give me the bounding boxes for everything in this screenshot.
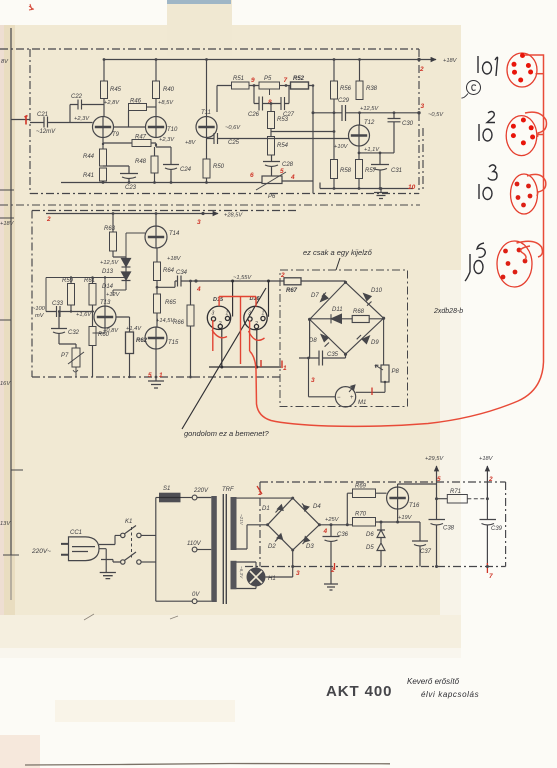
svg-text:R62: R62 [136,338,148,344]
svg-text:R66: R66 [173,320,185,326]
svg-text:D3: D3 [306,544,314,550]
svg-text:2: 2 [218,321,222,327]
svg-text:C36: C36 [337,532,349,538]
wire switch to transformer column [141,498,192,602]
wire +28.5V top rail [46,213,203,215]
kijelzo dashed enclosure [280,270,408,407]
svg-text:C25: C25 [228,140,240,146]
resistor R65 [154,294,161,313]
svg-text:R67: R67 [286,288,298,294]
svg-text:C29: C29 [338,98,350,104]
resistor R61 [89,284,96,306]
svg-text:C32: C32 [68,330,80,336]
resistor R52 [291,82,309,89]
svg-text:+18V: +18V [0,221,15,227]
svg-text:R41: R41 [83,173,94,179]
svg-text:110V: 110V [187,541,202,547]
mains plug CC1 [61,537,99,561]
wire diode column to bias rail [46,273,126,312]
svg-text:+1,6V: +1,6V [76,312,92,318]
fuse S1 [159,493,181,503]
svg-text:C37: C37 [420,549,432,555]
svg-text:~0,5V: ~0,5V [428,112,444,118]
resistor R62 [126,332,134,354]
svg-text:T9: T9 [112,132,120,138]
svg-text:9: 9 [251,77,255,84]
bottom rail right [320,183,413,189]
capacitor C27 [271,86,289,111]
svg-text:AKT 400: AKT 400 [326,683,392,700]
left edge tick y470 [11,469,23,471]
capacitor C22 [70,100,104,123]
svg-text:+25V: +25V [325,517,340,523]
svg-text:D9: D9 [371,340,379,346]
diode D4 [302,504,309,511]
transistor T15 [145,327,167,349]
capacitor C38 [429,520,446,567]
svg-text:R65: R65 [165,300,177,306]
ground C36 [324,584,338,590]
svg-text:C28: C28 [282,162,294,168]
red wires into sockets [212,297,265,365]
resistor R54 [268,137,275,156]
svg-text:P5: P5 [264,76,272,82]
resistor R45 [101,81,108,99]
svg-text:+1,4V: +1,4V [126,326,142,332]
svg-text:~1,55V: ~1,55V [233,275,252,281]
terminal 220V [192,495,197,500]
wire T12 top [359,113,361,125]
svg-text:R56: R56 [340,86,352,92]
svg-text:T14: T14 [169,231,180,237]
svg-text:R53: R53 [277,117,289,123]
transistor T14 [145,226,167,248]
junction dots middle box [58,212,205,379]
svg-text:R51: R51 [233,76,244,82]
junction dots top box [102,58,421,190]
lamp H1 [247,568,266,587]
transistor T11 [196,117,217,138]
resistor R58 [331,160,338,179]
page divider dash line [0,204,420,206]
resistor R46 [129,104,147,111]
svg-text:R50: R50 [213,164,225,170]
svg-text:M1: M1 [358,400,366,406]
svg-text:S1: S1 [163,486,170,492]
left page-edge vertical rule [10,28,12,600]
middle amplifier dashed enclosure [32,211,298,378]
wire mid column x334 [333,99,335,160]
resistor R47 [132,140,151,147]
potentiometer P8 [381,365,389,382]
wire T13 collector up [104,278,106,307]
svg-text:+12,5V: +12,5V [100,260,119,266]
svg-text:R68: R68 [353,309,365,315]
resistor R53 [268,112,275,129]
left edge tick y218 [0,217,14,219]
zener D6 [377,522,385,538]
svg-text:P8: P8 [392,369,400,375]
resistor R68 [352,316,369,323]
diode D11 middle [310,318,353,320]
bottom scan edge line [25,764,390,766]
wire rail drops [104,60,360,117]
capacitor C34 [157,276,196,288]
svg-text:D6: D6 [366,532,374,538]
svg-text:+19V: +19V [398,515,413,521]
svg-text:R38: R38 [366,86,378,92]
wire T12 emitter [359,146,394,160]
resistor R51 [232,82,250,89]
svg-text:0V: 0V [192,592,200,598]
svg-text:T15: T15 [168,340,179,346]
svg-text:6: 6 [250,172,254,179]
meter bridge diamond [310,282,384,354]
terminal 0V [192,599,197,604]
svg-text:220V~: 220V~ [31,548,51,555]
svg-text:~6,3V: ~6,3V [239,566,244,579]
svg-text:~12mV: ~12mV [36,129,56,135]
potentiometer P6 [262,176,282,184]
svg-text:C38: C38 [443,526,455,532]
svg-text:13V: 13V [0,521,11,527]
diode D3 [303,537,310,544]
meter M1 [335,387,355,407]
svg-text:+29,5V: +29,5V [425,456,444,462]
diode D1 [276,505,284,513]
handwriting 102 [479,112,495,142]
svg-text:+18V: +18V [167,256,182,262]
ground top box [374,189,388,199]
stray pencil mark [84,614,178,620]
resistor R63 [110,232,117,251]
svg-text:1: 1 [159,372,163,379]
red tick node 4 [260,360,262,367]
svg-text:R58: R58 [340,168,352,174]
wire socket feeds from output line [209,281,281,367]
capacitor C23 [103,166,138,183]
svg-text:C31: C31 [391,168,402,174]
svg-text:5: 5 [148,372,152,379]
svg-text:5: 5 [437,476,441,483]
circled c mark [462,81,481,99]
svg-text:+18V: +18V [443,58,458,64]
junction dots socket line [220,280,270,369]
svg-text:1: 1 [226,311,229,317]
svg-text:220V: 220V [193,488,209,494]
resistor R66 [187,305,194,326]
+18V arrow psu [486,466,488,499]
capacitor C33 [46,306,94,317]
resistor R59 [68,284,75,306]
svg-text:R48: R48 [135,159,147,165]
vertical +18 column [486,499,488,519]
capacitor C30 [388,113,401,153]
svg-text:16V: 16V [0,381,11,387]
wire to +18V arrow [419,59,436,61]
svg-text:R63: R63 [104,226,116,232]
svg-text:3: 3 [197,219,201,226]
diode D7 [321,294,329,302]
wire R67 to bridge top [301,281,346,282]
output line [196,280,284,282]
svg-text:ez csak a egy kijelző: ez csak a egy kijelző [303,248,373,257]
red tube ellipse 3 [511,174,538,214]
+29.5V arrow [436,466,438,499]
capacitor C35 [299,319,346,365]
diode D10 [364,294,372,301]
annotation diagonal pointer line [182,288,266,429]
svg-text:R54: R54 [277,143,289,149]
wire base T14 [113,257,126,258]
wire meter left [309,358,336,397]
svg-text:R44: R44 [83,154,95,160]
svg-text:D8: D8 [309,338,317,344]
transistor T16 [387,487,409,509]
svg-text:~100: ~100 [32,306,46,312]
vertical +29.5 column [436,499,438,519]
svg-text:+2,3V: +2,3V [159,137,175,143]
junction dots psu [266,497,489,568]
red tube ellipse 2 [506,116,537,156]
svg-text:C35: C35 [327,352,339,358]
red bus wire right edge [250,55,547,426]
svg-text:T10: T10 [167,127,178,133]
svg-text:2: 2 [46,216,51,223]
svg-text:C30: C30 [402,121,414,127]
junction dots kijelzo [307,281,386,384]
potentiometer P7 [72,348,80,367]
rectifier bridge diamond [268,498,320,550]
svg-text:CC1: CC1 [70,530,82,536]
red input tick [25,116,28,125]
red tube ellipse 1 [507,53,537,87]
svg-text:3: 3 [212,311,215,317]
svg-text:T11: T11 [201,110,211,116]
wire T13 emitter [93,328,106,333]
svg-text:K1: K1 [125,519,132,525]
ground mains [100,573,116,579]
svg-text:mV: mV [35,313,45,319]
capacitor C31 [371,153,389,189]
svg-text:R40: R40 [163,87,175,93]
svg-text:C23: C23 [125,185,137,191]
svg-text:TRF: TRF [222,487,234,493]
capacitor C29 [313,105,419,121]
svg-text:D11: D11 [332,307,343,313]
svg-text:D1: D1 [262,506,270,512]
red tick meter right [371,388,373,396]
svg-text:4: 4 [196,286,201,293]
svg-text:8V: 8V [1,59,9,65]
svg-text:+12,5V: +12,5V [360,106,379,112]
svg-text:T13: T13 [100,300,111,306]
svg-text:D4: D4 [313,504,321,510]
svg-text:+10V: +10V [334,144,349,150]
capacitor C32 [51,312,76,349]
handwriting 105 [465,243,485,281]
connector socket D15 [207,306,230,329]
svg-text:D10: D10 [371,288,383,294]
resistor R40 [153,81,160,99]
transistor T12 [349,125,370,146]
capacitor C25 [207,133,350,144]
left edge tick y190 [0,189,14,191]
transistor T9 [93,117,114,138]
svg-text:C39: C39 [491,526,503,532]
svg-text:2: 2 [254,321,258,327]
svg-text:+1,1V: +1,1V [364,147,380,153]
resistor R44 [100,149,107,166]
svg-text:−: − [337,395,341,401]
ground middle box [148,377,164,388]
svg-text:C34: C34 [176,270,188,276]
handwriting 103 [479,165,497,200]
svg-text:T16: T16 [409,503,420,509]
top amplifier dashed enclosure [0,49,423,194]
svg-text:+8V: +8V [185,140,196,146]
diode D9 [362,336,369,344]
wire into R51 [217,86,259,113]
resistor R70 [353,518,376,527]
svg-text:D13: D13 [102,269,114,275]
svg-text:P6: P6 [268,194,276,200]
diode D2 [275,534,283,542]
svg-text:R71: R71 [450,489,461,495]
svg-text:C26: C26 [248,112,260,118]
svg-text:3: 3 [421,103,425,110]
resistor R57 [356,160,363,179]
svg-text:+18V: +18V [479,456,494,462]
handwriting 101 [478,56,498,76]
wire +18V top rail [104,59,419,61]
capacitor C39 [480,520,497,567]
transistor T10 [146,117,167,138]
svg-text:~21V: ~21V [239,514,244,526]
svg-text:+: + [350,395,354,401]
svg-text:+2,8V: +2,8V [104,100,120,106]
+25V rail [319,522,379,525]
svg-text:élvi kapcsolás: élvi kapcsolás [421,690,479,699]
svg-text:7: 7 [284,77,288,84]
svg-text:T12: T12 [364,120,375,126]
capacitor C24 [163,165,179,183]
resistor R56 [331,81,338,99]
red tube ellipse 4 [497,241,532,287]
connector socket D16 [244,306,267,329]
zener D5 [377,538,385,567]
resistor R38 [356,81,363,100]
svg-text:gondolom ez a bemenet?: gondolom ez a bemenet? [184,429,269,438]
svg-text:+28,5V: +28,5V [224,213,243,219]
resistor R48 [151,156,158,173]
resistor R50 [203,159,210,178]
resistor R69 [353,489,376,498]
capacitor C28 [263,155,280,176]
capacitor C26 [254,86,271,111]
svg-text:D14: D14 [102,284,114,290]
wire bridge bottom [292,550,294,567]
svg-text:C22: C22 [71,94,83,100]
resistor R64 [154,262,161,281]
left edge tick y320 [0,319,11,321]
resistor R71 [447,495,467,504]
svg-text:2: 2 [419,66,424,73]
bottom common rail [61,182,262,184]
svg-text:P7: P7 [61,353,69,359]
left edge tick y555 [3,554,19,556]
resistor R60 [89,327,96,346]
svg-text:7: 7 [489,573,493,580]
svg-text:4: 4 [290,174,295,181]
potentiometer P5 [259,82,280,89]
svg-text:R52: R52 [293,76,305,82]
svg-text:C21: C21 [37,112,48,118]
svg-text:3: 3 [311,377,315,384]
capacitor C21 input [30,117,93,128]
svg-text:1: 1 [283,365,287,372]
wire secondary to bridge [237,498,293,549]
left edge tick at input [11,119,30,121]
svg-text:R45: R45 [110,87,122,93]
diode D14 [122,267,131,290]
svg-text:2: 2 [488,476,493,483]
svg-text:D5: D5 [366,545,374,551]
red speck top-left [29,4,34,10]
svg-text:C24: C24 [180,167,192,173]
diode D13 [122,259,131,268]
resistor R67 [284,278,301,285]
svg-text:Keverő erősítő: Keverő erősítő [407,677,460,686]
terminal 110V [192,547,197,552]
wire plug to switch [99,535,121,572]
svg-text:~0,6V: ~0,6V [225,125,241,131]
resistor R41 [100,168,107,181]
svg-text:1: 1 [262,311,265,317]
svg-text:C33: C33 [52,301,64,307]
svg-text:10: 10 [408,184,416,191]
svg-text:R64: R64 [163,268,175,274]
capacitor C36 [323,525,340,584]
svg-text:3: 3 [296,570,300,577]
psu dashed enclosure [245,482,506,567]
svg-text:+2,3V: +2,3V [74,116,90,122]
svg-text:R59: R59 [62,278,74,284]
wire base line [271,131,334,133]
svg-text:R47: R47 [135,135,147,141]
capacitor C37 [412,522,428,567]
svg-text:D2: D2 [268,544,276,550]
svg-text:D7: D7 [311,293,319,299]
svg-text:R69: R69 [355,484,367,490]
svg-text:R46: R46 [130,99,142,105]
svg-text:R61: R61 [84,278,95,284]
diode D8 [321,335,329,342]
transistor T13 [94,306,116,328]
svg-text:2xdb28-b: 2xdb28-b [433,308,463,315]
svg-text:+8,5V: +8,5V [158,100,174,106]
wire lamp [237,562,293,589]
svg-text:R70: R70 [355,512,367,518]
svg-text:4: 4 [323,528,328,535]
